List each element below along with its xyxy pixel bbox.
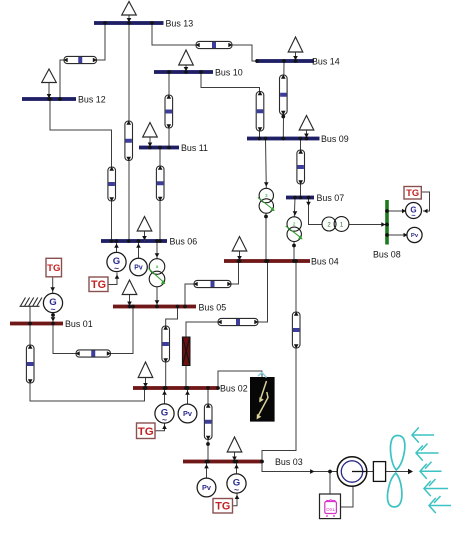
svg-text:~: ~ xyxy=(411,211,415,220)
svg-text:2: 2 xyxy=(293,221,296,226)
svg-text:~: ~ xyxy=(114,263,119,273)
svg-text:TG: TG xyxy=(215,501,230,513)
svg-text:Bus 06: Bus 06 xyxy=(170,237,198,247)
svg-text:Bus 05: Bus 05 xyxy=(199,303,227,313)
svg-text:Bus 03: Bus 03 xyxy=(275,457,303,467)
svg-text:Bus 08: Bus 08 xyxy=(373,250,401,260)
svg-text:Bus 13: Bus 13 xyxy=(166,19,194,29)
svg-text:a: a xyxy=(156,264,159,269)
svg-text:TG: TG xyxy=(138,426,154,438)
svg-text:Pv: Pv xyxy=(134,264,143,271)
svg-text:Pv: Pv xyxy=(183,409,193,418)
svg-text:Bus 07: Bus 07 xyxy=(317,193,345,203)
svg-text:TG: TG xyxy=(47,263,60,274)
svg-text:~: ~ xyxy=(50,304,55,314)
svg-text:Bus 04: Bus 04 xyxy=(311,257,339,267)
svg-text:Bus 09: Bus 09 xyxy=(321,134,349,144)
svg-text:Bus 14: Bus 14 xyxy=(312,57,340,67)
svg-text:OXL: OXL xyxy=(326,507,336,512)
svg-text:~: ~ xyxy=(162,414,167,424)
svg-text:TG: TG xyxy=(91,279,106,291)
svg-text:Bus 01: Bus 01 xyxy=(65,319,93,329)
svg-text:TG: TG xyxy=(406,188,419,198)
svg-text:Bus 12: Bus 12 xyxy=(78,95,106,105)
svg-text:~: ~ xyxy=(234,484,239,494)
svg-text:Bus 11: Bus 11 xyxy=(181,143,208,153)
svg-text:Bus 10: Bus 10 xyxy=(215,68,243,78)
svg-text:3: 3 xyxy=(265,193,268,198)
svg-text:Bus 02: Bus 02 xyxy=(220,384,248,394)
svg-text:Pv: Pv xyxy=(411,233,419,239)
svg-text:Pv: Pv xyxy=(202,483,212,492)
